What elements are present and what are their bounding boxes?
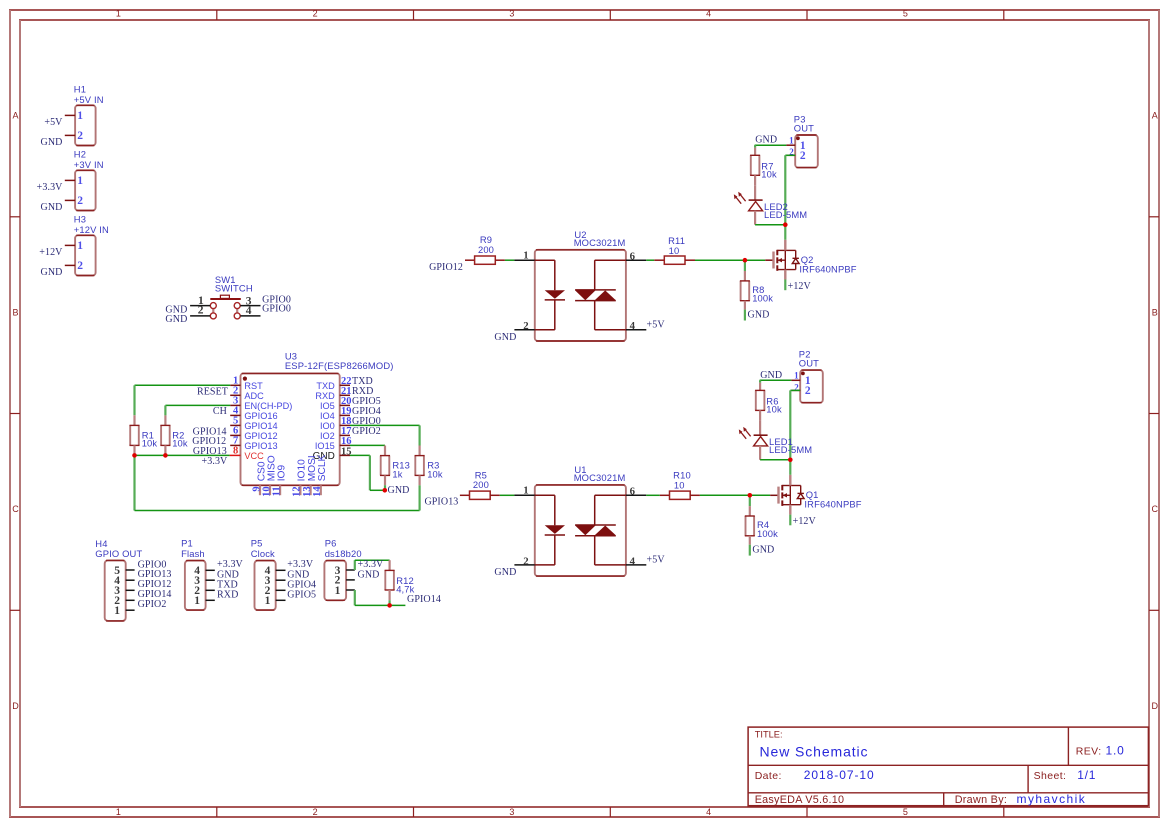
svg-text:GND: GND — [494, 567, 516, 578]
svg-text:P6: P6 — [325, 537, 337, 548]
resistor R6 — [755, 380, 782, 420]
optocoupler U2 MOC3021M — [514, 229, 646, 341]
svg-text:1: 1 — [77, 175, 83, 187]
wire P6 pin1 to GPIO14 — [354, 590, 356, 605]
svg-text:New Schematic: New Schematic — [760, 744, 869, 760]
svg-text:4: 4 — [706, 807, 711, 817]
svg-text:1: 1 — [116, 9, 121, 19]
svg-text:VCC: VCC — [244, 451, 264, 461]
svg-text:1: 1 — [77, 240, 83, 252]
svg-text:GPIO12: GPIO12 — [244, 431, 277, 441]
wire LED1 to junction — [760, 459, 790, 461]
svg-text:1/1: 1/1 — [1077, 768, 1096, 782]
svg-text:myhavchik: myhavchik — [1017, 792, 1087, 806]
wire GND to P2 pin1 — [760, 379, 792, 381]
wire SW1 pin2 — [190, 315, 210, 317]
svg-text:IRF640NPBF: IRF640NPBF — [799, 264, 856, 275]
svg-text:4: 4 — [630, 320, 636, 332]
svg-text:+3V IN: +3V IN — [74, 159, 104, 170]
svg-text:+5V IN: +5V IN — [74, 94, 104, 105]
wire U1 pin6 to R10 — [646, 494, 660, 496]
svg-text:Date:: Date: — [755, 770, 782, 782]
svg-text:OUT: OUT — [799, 358, 819, 369]
wire +3.3V bottom run to R3 — [135, 510, 420, 512]
connector H1 — [65, 84, 104, 146]
wire P3 pin2 down — [785, 154, 795, 156]
svg-text:1: 1 — [77, 110, 83, 122]
connector P6 ds18b20 — [324, 537, 361, 600]
resistor R7 — [750, 145, 777, 185]
svg-text:11: 11 — [271, 486, 282, 496]
svg-text:5: 5 — [903, 9, 908, 19]
junction — [743, 258, 748, 263]
svg-text:IO15: IO15 — [315, 441, 335, 451]
wire R5 to U1 pin1 — [500, 494, 515, 496]
svg-text:GND: GND — [41, 267, 63, 278]
svg-text:GND: GND — [165, 314, 187, 325]
wire junction to R4 — [749, 495, 751, 506]
svg-text:GPIO OUT: GPIO OUT — [95, 548, 142, 559]
wire EN pin3 to R2 — [165, 404, 230, 406]
resistor R13 — [380, 446, 410, 491]
junction — [383, 488, 388, 493]
connector P1 Flash — [181, 537, 215, 610]
resistor R4 — [745, 506, 778, 555]
svg-text:RXD: RXD — [315, 391, 335, 401]
resistor R9 — [465, 234, 505, 264]
svg-text:RESET: RESET — [197, 387, 228, 398]
svg-text:200: 200 — [473, 479, 489, 490]
switch SW1 — [198, 274, 253, 319]
svg-text:GPIO2: GPIO2 — [138, 599, 167, 610]
svg-text:IO5: IO5 — [320, 401, 335, 411]
svg-text:TXD: TXD — [316, 381, 335, 391]
svg-text:GND: GND — [41, 137, 63, 148]
svg-text:Flash: Flash — [181, 548, 205, 559]
svg-text:10k: 10k — [766, 404, 782, 415]
svg-text:10k: 10k — [172, 438, 188, 449]
svg-text:RST: RST — [244, 381, 263, 391]
svg-text:A: A — [12, 111, 18, 121]
svg-text:2: 2 — [800, 150, 806, 162]
wire RST pin1 to R1 — [135, 384, 231, 386]
resistor R10 — [660, 470, 700, 500]
svg-text:IO2: IO2 — [320, 431, 335, 441]
svg-text:+3.3V: +3.3V — [202, 456, 229, 467]
svg-text:1: 1 — [116, 807, 121, 817]
svg-text:ds18b20: ds18b20 — [325, 548, 362, 559]
resistor R8 — [740, 271, 773, 321]
svg-text:+5V: +5V — [647, 320, 666, 331]
svg-text:4: 4 — [630, 555, 636, 567]
svg-text:3: 3 — [509, 9, 514, 19]
svg-text:Sheet:: Sheet: — [1034, 770, 1067, 782]
svg-text:B: B — [12, 307, 18, 317]
svg-text:2018-07-10: 2018-07-10 — [804, 768, 875, 782]
wire GND to P3 pin1 — [755, 144, 787, 146]
connector H3 — [65, 214, 109, 276]
svg-text:IO4: IO4 — [320, 411, 335, 421]
junction — [783, 222, 788, 227]
svg-text:14: 14 — [312, 486, 323, 497]
svg-text:GPIO13: GPIO13 — [424, 497, 458, 508]
svg-text:C: C — [12, 504, 19, 514]
svg-text:LED-5MM: LED-5MM — [764, 209, 807, 220]
svg-text:LED-5MM: LED-5MM — [769, 444, 812, 455]
svg-text:C: C — [1152, 504, 1159, 514]
resistor R5 — [460, 469, 500, 499]
wire +3.3V down — [133, 455, 135, 510]
connector P3 OUT — [786, 113, 817, 167]
svg-text:4: 4 — [706, 9, 711, 19]
svg-text:B: B — [1152, 307, 1158, 317]
resistor R1 — [130, 415, 158, 455]
svg-text:GPIO5: GPIO5 — [287, 589, 316, 600]
svg-text:+5V: +5V — [647, 555, 666, 566]
svg-text:MOC3021M: MOC3021M — [574, 237, 626, 248]
svg-text:5: 5 — [903, 807, 908, 817]
svg-text:GND: GND — [755, 135, 777, 146]
wire +3.3V rail to VCC pin8 — [135, 454, 230, 456]
svg-text:6: 6 — [630, 486, 636, 498]
svg-text:1: 1 — [335, 585, 341, 597]
svg-text:D: D — [1152, 701, 1159, 711]
svg-text:A: A — [1152, 111, 1158, 121]
wire U2 pin6 to R11 — [646, 259, 654, 261]
svg-text:8: 8 — [233, 446, 238, 457]
wire IO15 pin16 to R13 — [350, 444, 385, 446]
wire junction to R8 — [744, 260, 746, 271]
junction — [788, 458, 793, 463]
junction — [132, 453, 137, 458]
svg-text:GND: GND — [41, 202, 63, 213]
svg-text:GND: GND — [748, 310, 770, 321]
svg-text:+12V: +12V — [788, 281, 812, 292]
svg-text:100k: 100k — [757, 528, 778, 539]
svg-text:1: 1 — [794, 370, 799, 380]
svg-text:+12V: +12V — [39, 247, 63, 258]
svg-text:EasyEDA V5.6.10: EasyEDA V5.6.10 — [755, 794, 845, 806]
svg-text:2: 2 — [805, 385, 811, 397]
svg-text:3: 3 — [509, 807, 514, 817]
svg-text:IO0: IO0 — [320, 421, 335, 431]
svg-text:P1: P1 — [181, 537, 193, 548]
svg-text:ESP-12F(ESP8266MOD): ESP-12F(ESP8266MOD) — [285, 360, 394, 371]
svg-text:Clock: Clock — [251, 548, 275, 559]
junction — [387, 603, 392, 608]
wire R11 to Q2 gate — [695, 259, 765, 261]
svg-text:GND: GND — [388, 485, 410, 496]
svg-text:1k: 1k — [392, 468, 402, 479]
svg-text:REV:: REV: — [1076, 745, 1102, 757]
svg-text:10: 10 — [674, 479, 685, 490]
svg-text:10: 10 — [669, 245, 680, 256]
connector H2 — [65, 149, 104, 211]
wire SW1 pin1 — [190, 305, 210, 307]
svg-text:1.0: 1.0 — [1106, 743, 1125, 757]
svg-text:2: 2 — [523, 320, 528, 332]
wire SW1 pin4 — [240, 315, 260, 317]
svg-text:GPIO14: GPIO14 — [244, 421, 277, 431]
svg-text:GPIO13: GPIO13 — [244, 441, 277, 451]
svg-text:1: 1 — [789, 135, 794, 145]
svg-text:2: 2 — [77, 260, 83, 272]
svg-text:Drawn By:: Drawn By: — [955, 794, 1008, 806]
wire R10 to Q1 gate — [700, 494, 770, 496]
svg-text:GPIO16: GPIO16 — [244, 411, 277, 421]
svg-text:2: 2 — [198, 305, 204, 317]
connector H4 GPIO OUT — [95, 538, 142, 621]
svg-text:6: 6 — [630, 250, 636, 262]
svg-text:100k: 100k — [752, 293, 773, 304]
wire GND pin15 — [350, 454, 370, 456]
svg-text:2: 2 — [77, 130, 83, 142]
svg-text:10k: 10k — [427, 469, 443, 480]
svg-text:EN(CH-PD): EN(CH-PD) — [244, 401, 292, 411]
svg-text:2: 2 — [313, 807, 318, 817]
svg-text:GPIO12: GPIO12 — [429, 262, 463, 273]
svg-text:GND: GND — [494, 332, 516, 343]
svg-text:2: 2 — [77, 195, 83, 207]
wire IO0 pin18 to R3 — [350, 424, 420, 426]
svg-text:GPIO0: GPIO0 — [262, 304, 291, 315]
optocoupler U1 MOC3021M — [514, 464, 646, 576]
svg-text:GPIO14: GPIO14 — [407, 594, 441, 605]
wire P6 pin3 to R12 top (+3.3V) — [354, 560, 356, 570]
svg-text:RXD: RXD — [217, 589, 238, 600]
wire R9 to U2 pin1 — [505, 259, 515, 261]
svg-text:SWITCH: SWITCH — [215, 282, 253, 293]
svg-text:1: 1 — [523, 249, 528, 261]
wire LED2 to junction — [755, 224, 785, 226]
junction — [163, 453, 168, 458]
svg-text:2: 2 — [313, 9, 318, 19]
svg-text:10k: 10k — [761, 168, 777, 179]
svg-text:4: 4 — [246, 305, 252, 317]
resistor R3 — [415, 446, 443, 486]
pin 8 VCC (red) — [230, 454, 241, 456]
mosfet Q2 IRF640NPBF — [765, 240, 857, 291]
connector P2 OUT — [791, 349, 822, 403]
svg-text:GPIO2: GPIO2 — [352, 426, 381, 437]
resistor R12 — [385, 560, 415, 605]
svg-text:MOC3021M: MOC3021M — [574, 472, 626, 483]
svg-text:1: 1 — [265, 595, 271, 607]
connector P5 Clock — [251, 537, 286, 610]
led LED1 LED-5MM — [739, 420, 812, 459]
wire SW1 pin3 — [240, 305, 260, 307]
svg-text:2: 2 — [523, 555, 528, 567]
svg-text:ADC: ADC — [244, 391, 264, 401]
svg-text:1: 1 — [523, 484, 528, 496]
wire LED2 junction to Q2 drain — [784, 225, 786, 240]
mosfet Q1 IRF640NPBF — [770, 475, 862, 526]
svg-text:GND: GND — [358, 569, 380, 580]
wire LED1 junction to Q1 drain — [789, 460, 791, 475]
svg-text:10k: 10k — [142, 438, 158, 449]
svg-text:+12V IN: +12V IN — [74, 224, 109, 235]
svg-text:SCLK: SCLK — [317, 454, 328, 481]
svg-text:D: D — [12, 701, 19, 711]
svg-text:GND: GND — [760, 370, 782, 381]
svg-text:OUT: OUT — [794, 123, 814, 134]
svg-text:P5: P5 — [251, 537, 263, 548]
resistor R2 — [160, 415, 188, 455]
wire P2 pin2 down — [790, 389, 800, 391]
svg-text:TITLE:: TITLE: — [755, 730, 783, 740]
svg-text:+12V: +12V — [793, 516, 817, 527]
led LED2 LED-5MM — [734, 185, 807, 224]
svg-text:IRF640NPBF: IRF640NPBF — [804, 499, 861, 510]
svg-text:CH: CH — [213, 406, 227, 417]
svg-text:+3.3V: +3.3V — [37, 182, 64, 193]
svg-text:1: 1 — [114, 605, 120, 617]
svg-text:IO9: IO9 — [276, 465, 287, 482]
svg-text:1: 1 — [194, 595, 200, 607]
ic U3 ESP-12F(ESP8266MOD) — [230, 350, 394, 497]
svg-text:+5V: +5V — [44, 117, 63, 128]
resistor R11 — [654, 235, 695, 264]
svg-text:4,7k: 4,7k — [396, 584, 414, 595]
svg-text:GND: GND — [752, 545, 774, 556]
svg-text:+3.3V: +3.3V — [358, 559, 385, 570]
svg-text:200: 200 — [478, 244, 494, 255]
junction — [748, 493, 753, 498]
